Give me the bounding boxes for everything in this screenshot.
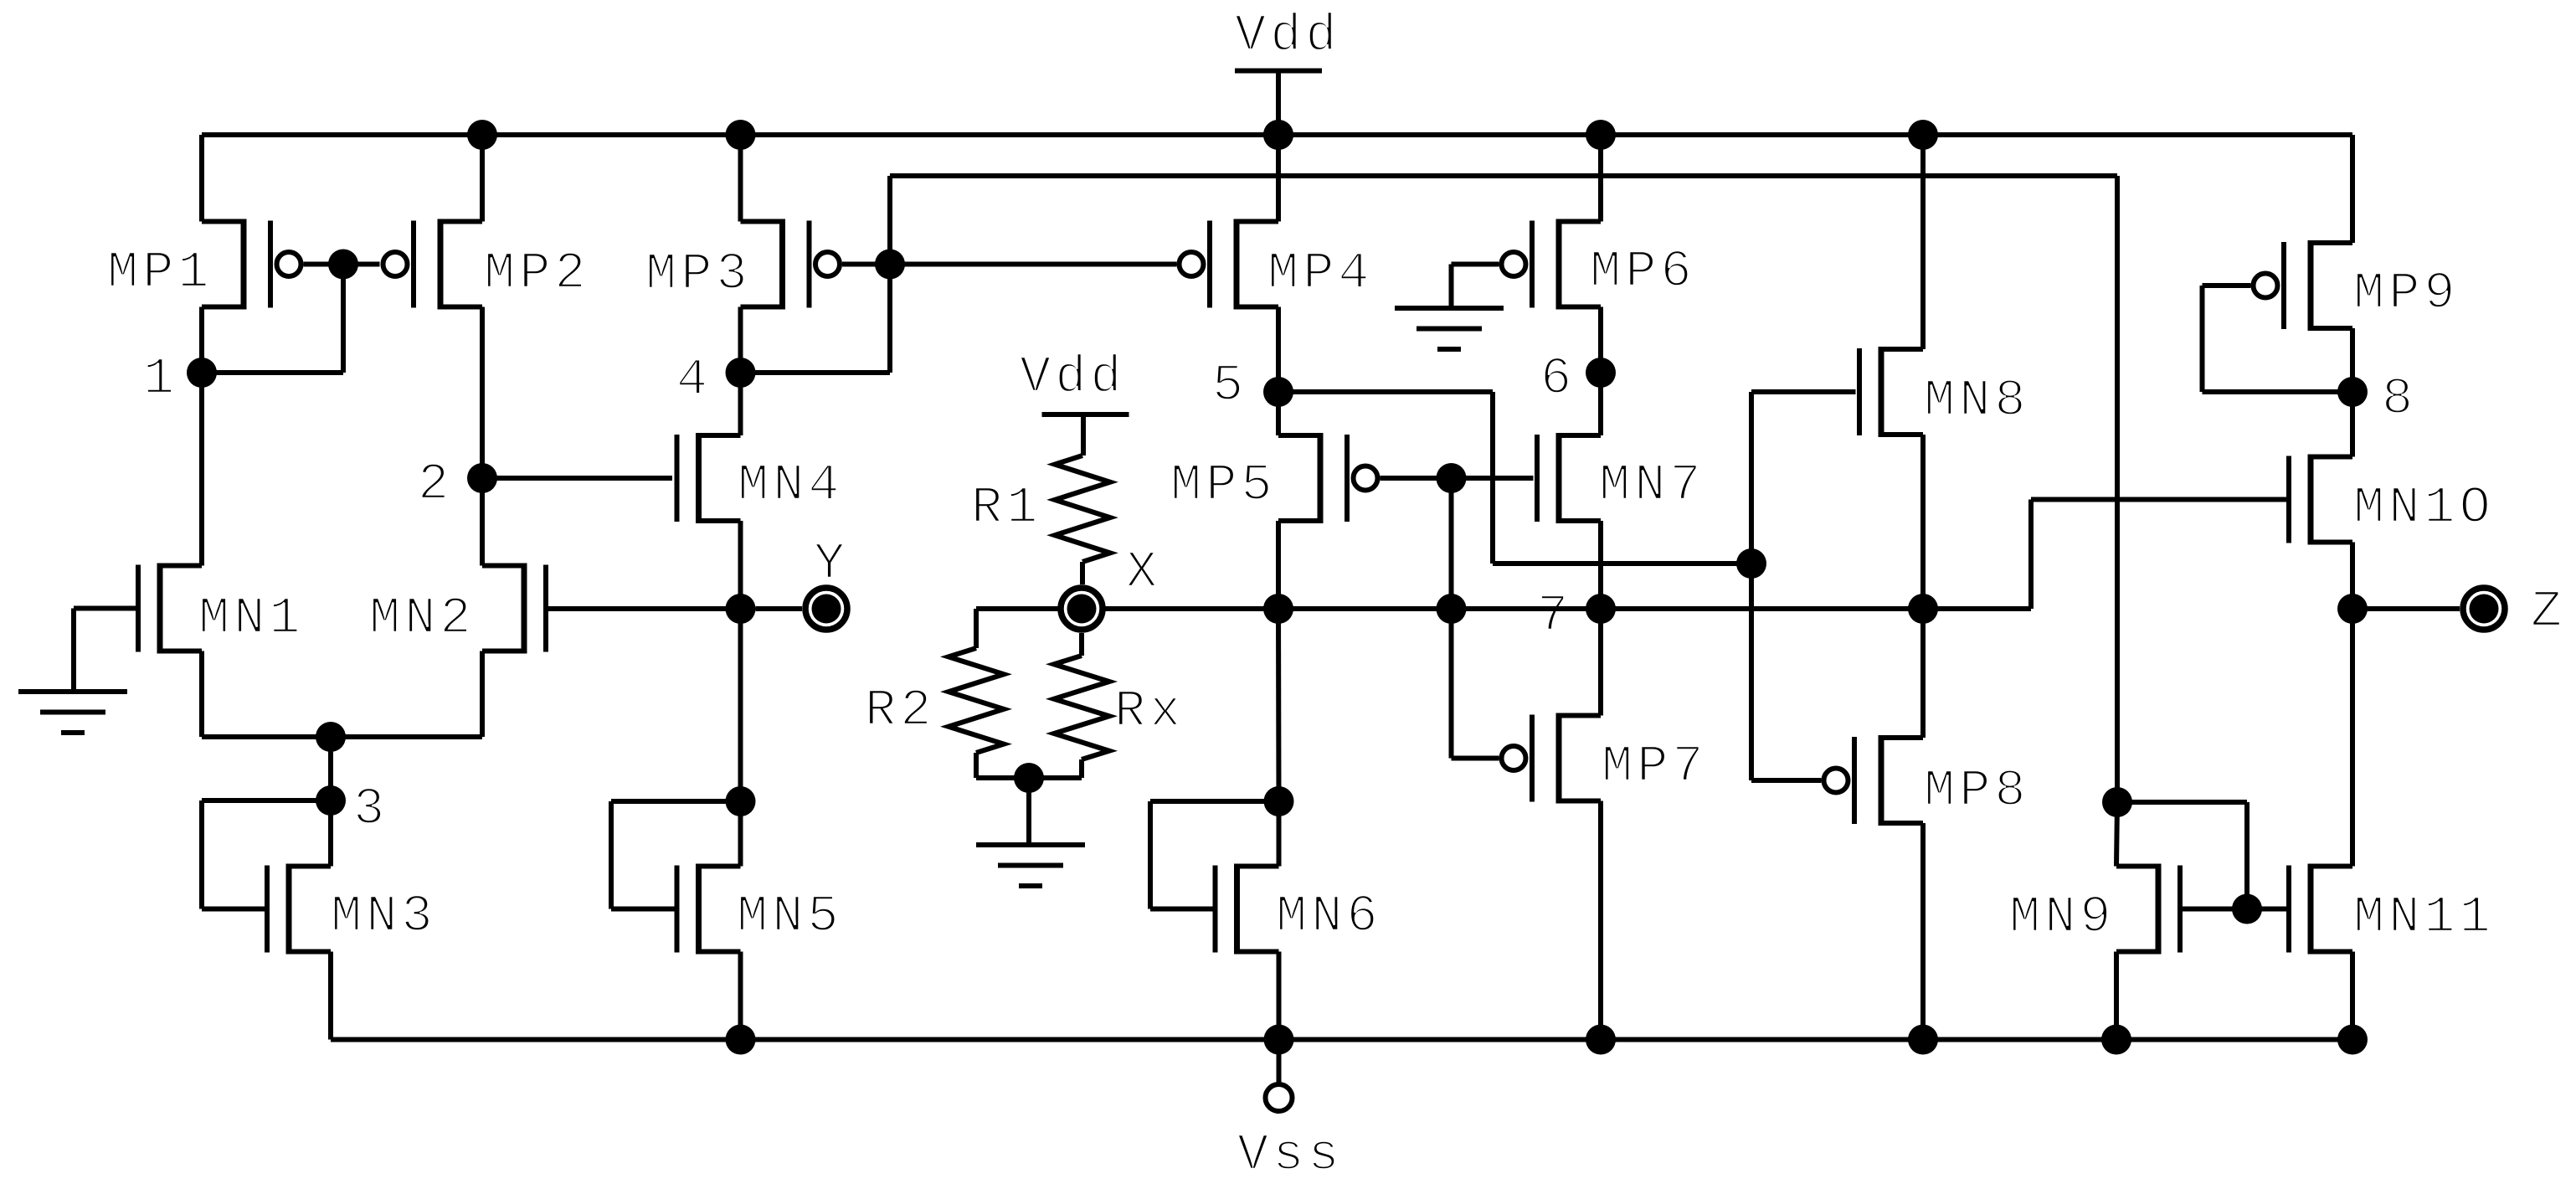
node 5 junction (1263, 377, 1293, 407)
svg-text:MP9: MP9 (2353, 264, 2460, 323)
wire to MN7 gate (1452, 476, 1534, 481)
svg-text:Vss: Vss (1237, 1125, 1344, 1185)
wire MP9 drain (2350, 135, 2355, 243)
transistor MN2 (482, 564, 546, 654)
junction MP5 source X row (1263, 594, 1293, 624)
ground R2/Rx (976, 845, 1085, 886)
svg-text:6: 6 (1540, 349, 1576, 409)
wire tail (202, 734, 482, 739)
resistor Rx (1054, 656, 1109, 759)
junction MN6/Vss (1264, 1025, 1294, 1055)
wire tail to node 3 (328, 737, 333, 800)
wire node1 to MN1 drain (199, 373, 204, 566)
node Z junction (2337, 594, 2368, 624)
junction rail/MP2 (467, 120, 497, 150)
wire MP6 drain (1598, 135, 1603, 222)
wire R1 top lead (1081, 414, 1086, 456)
wire MN1 source down (199, 651, 204, 738)
wire MP6 source to node 6 (1598, 307, 1603, 373)
svg-text:R2: R2 (865, 681, 935, 740)
wire Rx bottom lead (1079, 759, 1084, 778)
transistor MN7 (1537, 433, 1601, 523)
svg-text:MP1: MP1 (107, 243, 213, 302)
wire MN3 gate loop left (199, 800, 204, 909)
junction MN8 source X row (1908, 594, 1938, 624)
junction MP7/Vss (1586, 1025, 1616, 1055)
wire node4 to MN4 drain (738, 373, 743, 435)
resistor R2 (949, 648, 1004, 753)
ground MN1 gate (18, 692, 127, 733)
svg-text:MN1: MN1 (198, 589, 305, 648)
node 6 junction (1586, 358, 1616, 388)
wire MP5 gate (1381, 476, 1452, 481)
wire MN6 gate loop left (1148, 801, 1153, 909)
wire up to MN8 gate (1749, 392, 1754, 564)
wire node7 to MP7 drain (1598, 609, 1603, 716)
wire MP8 gate (1751, 778, 1822, 783)
wire MN5 gate loop left (609, 801, 614, 909)
wire R2 bottom lead (974, 753, 979, 778)
wire MN2 source down (480, 651, 485, 738)
wire down to MP8 gate (1749, 564, 1754, 780)
wire Y to terminal (756, 606, 803, 611)
transistor MN11 (2289, 864, 2352, 955)
node 3 junction (316, 785, 346, 816)
wire gate chain to MP7 (1449, 609, 1454, 759)
junction rail/MP6 (1586, 120, 1616, 150)
junction MN8/MP8 gates (1736, 548, 1766, 579)
wire MN5 gate loop bottom (611, 907, 675, 912)
wire Z down to MN11 drain (2350, 609, 2355, 867)
terminal Z (2463, 588, 2505, 630)
transistor MP3 (741, 219, 841, 310)
wire MN1 gate down (71, 609, 76, 692)
node 1 junction (187, 358, 217, 388)
wire MP5 source to X row (1276, 521, 1281, 609)
transistor MP7 (1502, 713, 1602, 804)
wire MN9 source (2114, 952, 2119, 1040)
wire MP1-MP2 gate (304, 262, 380, 267)
wire MN6 gate loop bottom (1150, 907, 1213, 912)
wire MP8 source (1920, 823, 1926, 1040)
junction MN5 drain (726, 786, 756, 816)
transistor MP8 (1824, 735, 1924, 826)
terminal Y (805, 588, 847, 630)
wire R2 top lead (974, 609, 979, 648)
transistor MN4 (677, 433, 741, 523)
wire long top net (890, 173, 2117, 178)
wire R2 bottom (976, 775, 1029, 780)
svg-text:MP4: MP4 (1267, 244, 1374, 303)
svg-text:MP7: MP7 (1602, 737, 1708, 796)
svg-text:8: 8 (2382, 369, 2417, 429)
svg-text:MN3: MN3 (331, 887, 437, 946)
wire Rx bottom (1029, 775, 1082, 780)
ground MP6 gate (1395, 308, 1504, 349)
wire MP1 source to node 1 (199, 307, 204, 373)
wire MP9 gate (2203, 283, 2251, 288)
wire MN10 source to Z (2350, 543, 2355, 610)
wire MN6 gate loop top (1150, 799, 1279, 804)
wire Z to terminal (2352, 606, 2460, 611)
svg-text:MN1O: MN1O (2353, 478, 2495, 538)
svg-text:X: X (1126, 543, 1161, 602)
wire MN11 source (2350, 952, 2355, 1040)
wire MN4 source to Y (738, 521, 743, 609)
wire MP3 gate to tie (842, 262, 890, 267)
wire node 5 to gates (1493, 561, 1751, 566)
wire MP9 source to node 8 (2350, 328, 2355, 392)
transistor MP9 (2254, 240, 2353, 331)
wire gate tie vertical (341, 265, 346, 373)
wire gate tie up (887, 176, 892, 265)
junction MN11/Vss (2337, 1025, 2368, 1055)
svg-text:MN8: MN8 (1924, 371, 2030, 430)
wire MN10 gate (2031, 497, 2287, 502)
junction MP8/Vss (1908, 1025, 1938, 1055)
wire to ground (1026, 778, 1031, 845)
junction MN6 drain (1264, 786, 1294, 816)
svg-text:MN9: MN9 (2009, 888, 2116, 947)
power Vdd symbol (1235, 69, 1322, 74)
transistor MN10 (2289, 455, 2352, 545)
junction MN9/MN11 gates (2232, 894, 2262, 924)
svg-text:MN7: MN7 (1599, 456, 1705, 515)
svg-text:Z: Z (2531, 582, 2566, 641)
junction rail/MP4 (1263, 120, 1293, 150)
wire node6 to MN7 drain (1598, 373, 1603, 435)
svg-text:Y: Y (814, 534, 849, 594)
wire Vss stem (1277, 1040, 1282, 1085)
junction rail/MN8 (1908, 120, 1938, 150)
wire MN9 drain to gates (2117, 800, 2247, 805)
transistor MN3 (267, 864, 331, 955)
junction MP1/MP2 gates (328, 250, 358, 280)
wire gates vertical (2244, 802, 2250, 909)
junction MN9/Vss (2101, 1025, 2131, 1055)
svg-text:MN6: MN6 (1276, 887, 1382, 946)
wire node5 to MP5 drain (1276, 392, 1281, 435)
svg-text:MP8: MP8 (1924, 761, 2030, 821)
transistor MP5 (1278, 433, 1378, 523)
wire MP6 gate to ground (1449, 265, 1454, 309)
wire MP7 source (1598, 801, 1603, 1040)
wire MN5 drain (738, 801, 743, 867)
svg-text:Rx: Rx (1114, 682, 1185, 741)
wire MP3 drain (738, 135, 743, 222)
power Vdd R1 (1042, 412, 1129, 417)
node 4 junction (726, 358, 756, 388)
wire MN1 gate (74, 606, 136, 611)
node Y junction (726, 594, 756, 624)
wire node 5 right (1278, 389, 1493, 394)
wire node 5 down (1490, 392, 1495, 564)
wire MN5 source (738, 952, 743, 1040)
wire node 1 to gate tie (202, 370, 343, 375)
transistor MP6 (1502, 219, 1602, 310)
wire MP6 gate (1452, 262, 1499, 267)
transistor MN5 (677, 864, 741, 955)
svg-text:MN4: MN4 (738, 456, 844, 515)
resistor R1 (1055, 456, 1110, 562)
wire X row up to MN10 gate (2028, 500, 2034, 610)
wire MN8 gate (1751, 389, 1856, 394)
wire MN9 gate (2183, 907, 2247, 912)
junction gate chain (1437, 463, 1467, 493)
wire Vdd top rail (202, 132, 2352, 137)
wire MN7 source to node 7 (1598, 521, 1603, 609)
wire gate chain down (1449, 478, 1454, 609)
transistor MN6 (1216, 864, 1279, 955)
node 8 junction (2337, 377, 2368, 407)
wire MP1 drain (199, 135, 204, 222)
wire node2 to MN2 drain (480, 478, 485, 566)
wire MN11 gate (2247, 907, 2287, 912)
junction MN5/Vss (726, 1025, 756, 1055)
junction rail/MP3 (726, 120, 756, 150)
wire tie down to node 4 (887, 265, 892, 373)
wire MN9 drain stub (2116, 802, 2117, 867)
wire MN8 source to X row (1920, 435, 1926, 609)
transistor MN9 (2116, 864, 2180, 955)
transistor MN8 (1859, 347, 1923, 437)
junction R2/Rx (1014, 763, 1044, 793)
wire MN3 gate loop top (202, 798, 331, 803)
wire MP9 gate to node 8 (2203, 389, 2353, 394)
wire MN8 source to MP8 drain (1920, 609, 1926, 738)
svg-text:3: 3 (353, 780, 388, 839)
wire MP4 source to node 5 (1276, 307, 1281, 393)
svg-text:7: 7 (1537, 586, 1572, 646)
wire MN6 drain (1277, 801, 1282, 867)
wire MN3 gate loop bottom (202, 907, 265, 912)
transistor MP2 (383, 219, 483, 310)
wire Rx top lead (1079, 633, 1084, 656)
transistor MP1 (202, 219, 301, 310)
terminal Vss (1266, 1084, 1293, 1111)
wire MN5 gate loop top (611, 799, 741, 804)
wire Vdd stem (1276, 71, 1281, 136)
wire X row (976, 606, 2031, 611)
svg-text:Vdd: Vdd (1235, 6, 1341, 65)
wire MP2 source to node 2 (480, 307, 485, 479)
wire Y down to MN5 (738, 609, 743, 801)
svg-text:MP5: MP5 (1170, 456, 1277, 515)
wire MP9 gate down (2200, 286, 2205, 392)
wire MP4 drain (1276, 135, 1281, 222)
svg-text:MP2: MP2 (484, 244, 590, 303)
svg-text:MP6: MP6 (1590, 242, 1696, 301)
junction tail (316, 722, 346, 752)
junction MN9 drain (2102, 787, 2132, 817)
wire Vss bottom rail (331, 1037, 2352, 1042)
wire R1 bottom lead (1080, 562, 1085, 584)
svg-text:Vdd: Vdd (1020, 347, 1126, 407)
wire node8 to MN10 drain (2350, 392, 2355, 457)
junction gate chain X row (1437, 594, 1467, 624)
svg-text:MP3: MP3 (645, 244, 752, 304)
transistor MP4 (1180, 219, 1279, 310)
svg-text:MN5: MN5 (737, 887, 843, 946)
wire node 4 right (741, 370, 891, 375)
wire MN3 source (328, 952, 333, 1040)
wire MP2 drain (480, 135, 485, 222)
wire MN8 drain (1920, 135, 1926, 349)
transistor MN1 (138, 564, 202, 654)
wire node 2 to MN4 gate (482, 476, 672, 481)
wire to MP7 bubble (1452, 756, 1499, 761)
svg-text:MN2: MN2 (369, 589, 476, 648)
wire MP3 gate to MP4 gate (890, 262, 1177, 267)
svg-text:R1: R1 (971, 478, 1041, 538)
svg-text:5: 5 (1212, 356, 1247, 415)
wire X row down to MN6 (1276, 609, 1282, 801)
junction Vdd/rail (1263, 120, 1293, 150)
wire MN6 source (1277, 952, 1282, 1040)
svg-text:1: 1 (143, 349, 178, 409)
wire MN2 gate to Y (548, 606, 741, 611)
node 7 junction (1586, 594, 1616, 624)
wire long net down to MN9 (2115, 176, 2120, 802)
svg-text:2: 2 (418, 455, 453, 514)
wire MN3 drain (328, 800, 333, 867)
node 2 junction (467, 463, 497, 493)
terminal X (1061, 588, 1103, 630)
svg-text:4: 4 (676, 350, 712, 409)
wire MP3 source to node 4 (738, 307, 743, 373)
junction MP3 gate tie (875, 250, 905, 280)
svg-text:MN11: MN11 (2353, 888, 2495, 947)
